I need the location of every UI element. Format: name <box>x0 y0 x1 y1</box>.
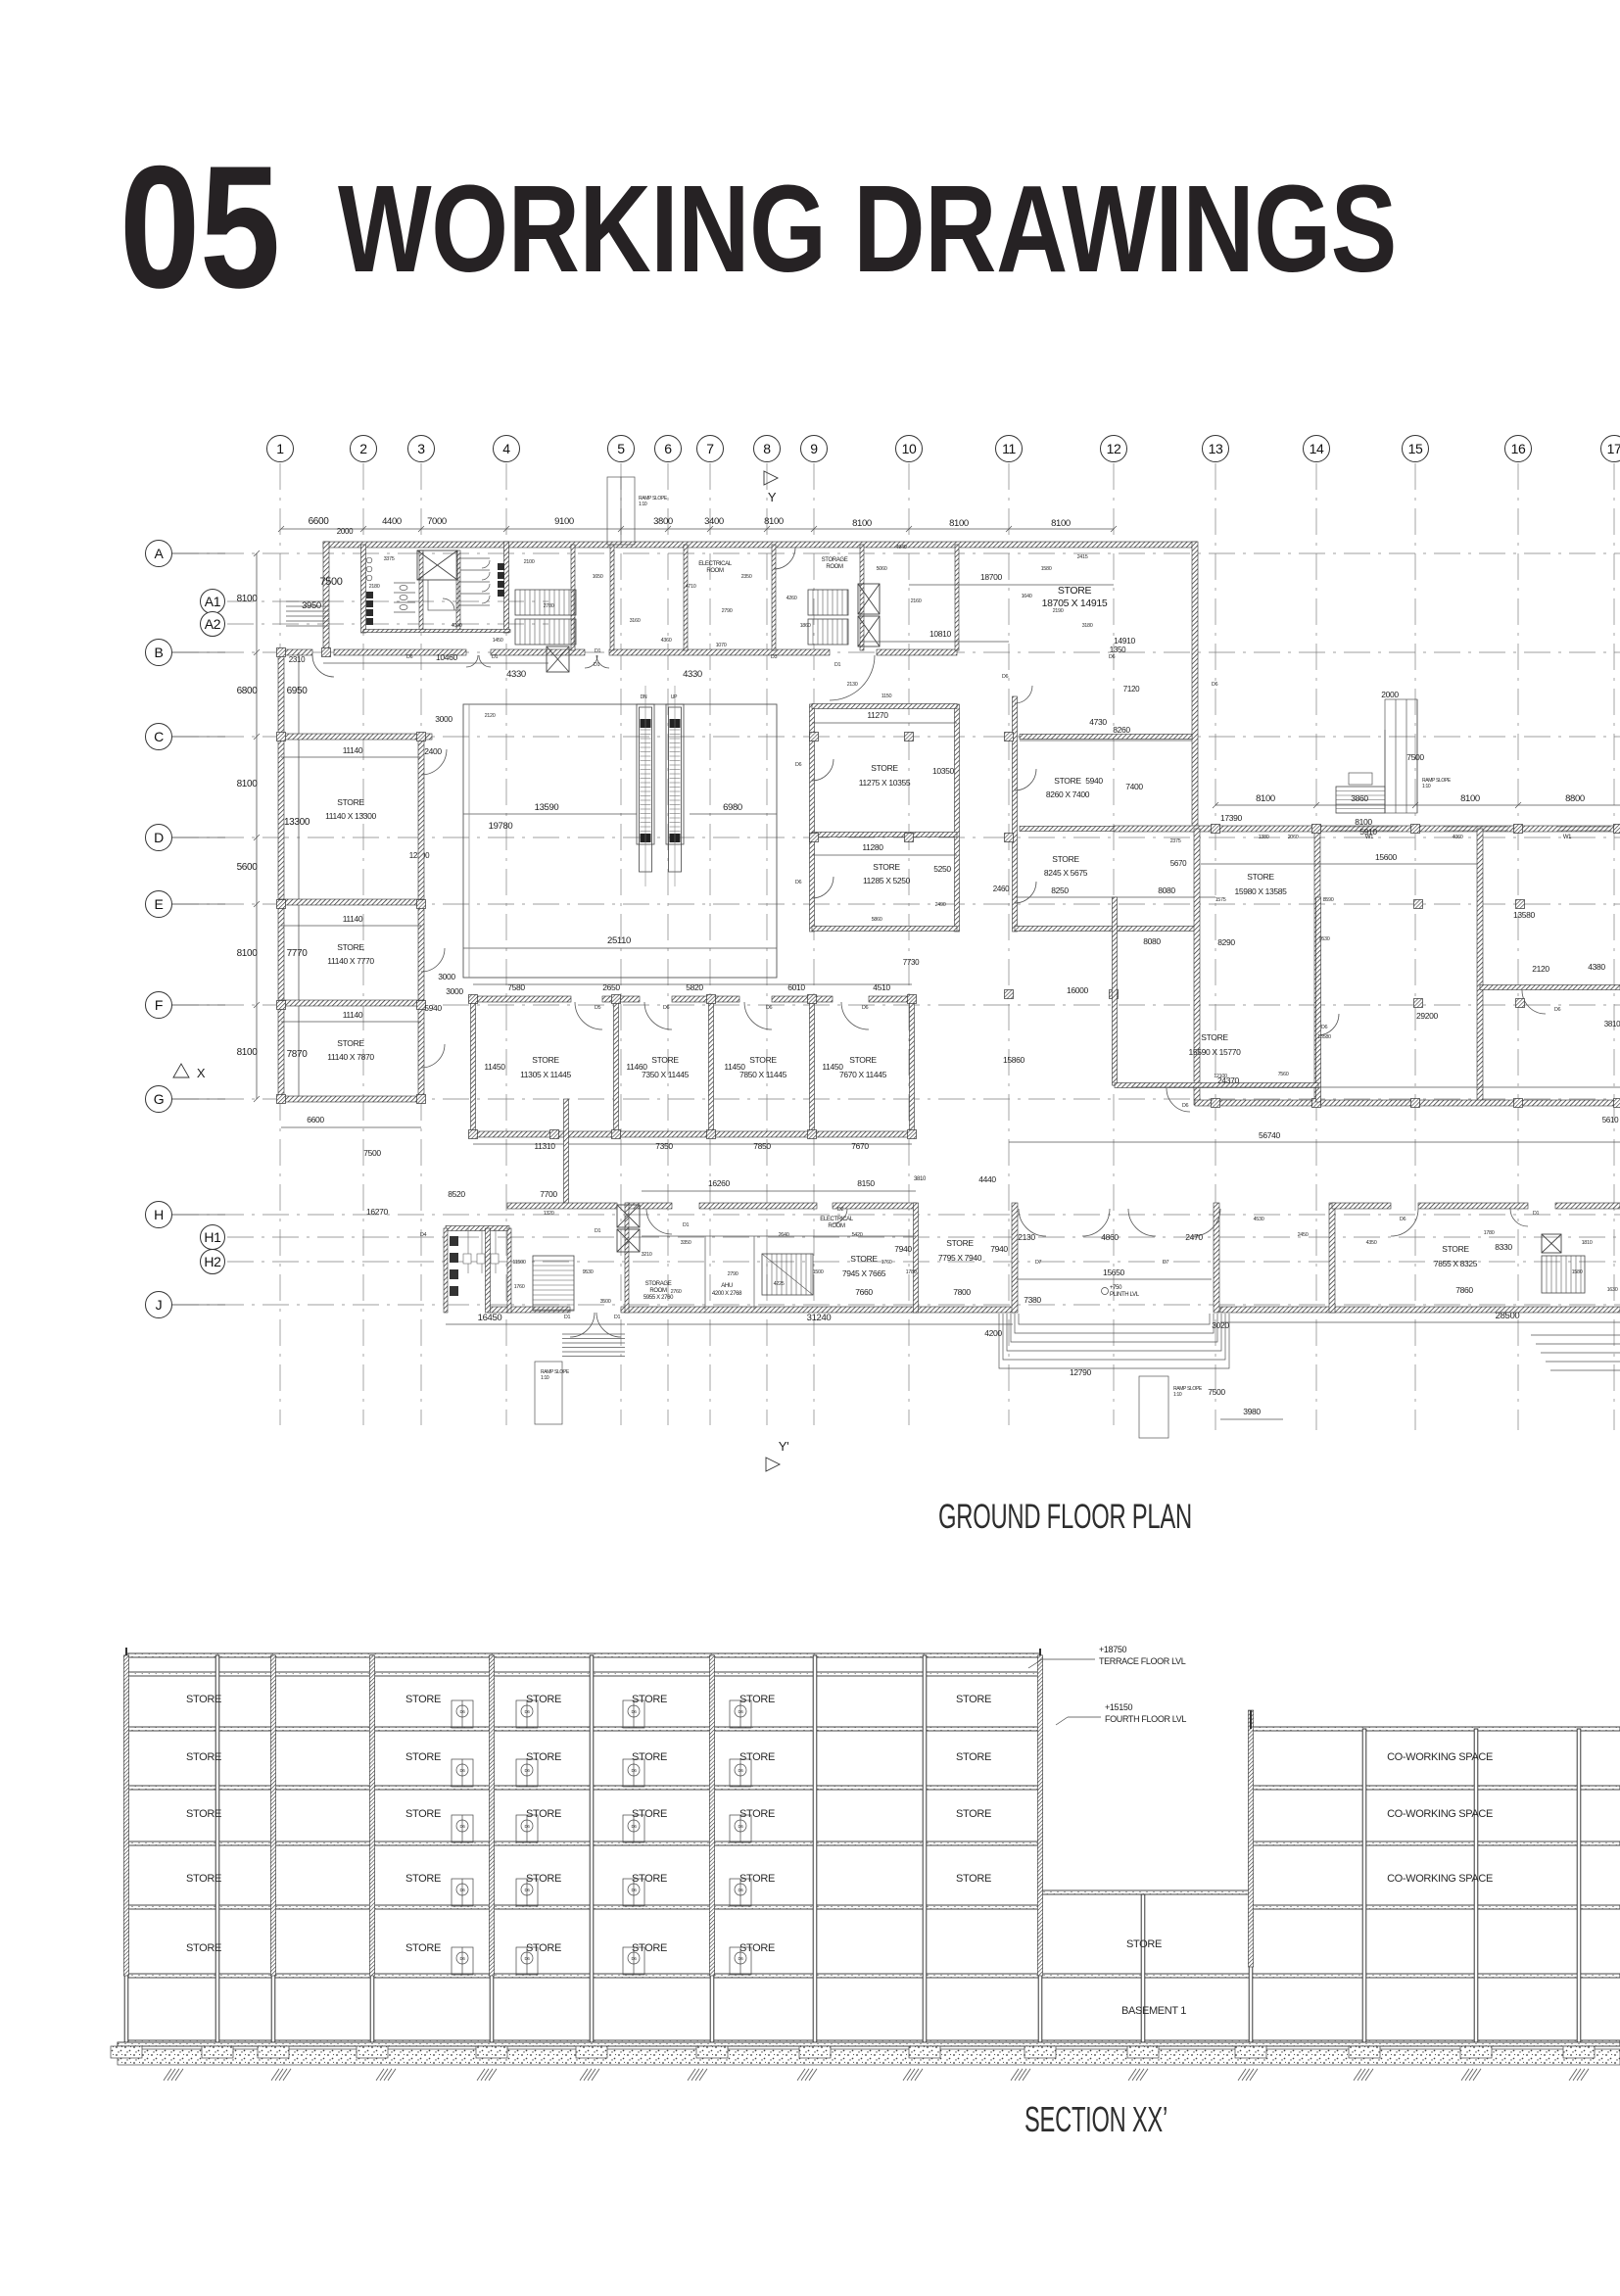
svg-text:11: 11 <box>1002 441 1016 456</box>
svg-text:8100: 8100 <box>949 518 969 529</box>
svg-text:D6: D6 <box>631 1709 637 1714</box>
svg-text:STORE: STORE <box>405 1942 441 1954</box>
svg-text:5955 X 2760: 5955 X 2760 <box>643 1295 674 1301</box>
svg-text:WORKING DRAWINGS: WORKING DRAWINGS <box>338 160 1397 298</box>
svg-text:2: 2 <box>359 441 367 456</box>
svg-text:1630: 1630 <box>1607 1287 1618 1293</box>
svg-text:D6: D6 <box>738 1709 743 1714</box>
svg-text:4510: 4510 <box>873 982 890 992</box>
middle rooms bottom wall <box>473 1131 915 1137</box>
atrium boundary <box>463 704 777 978</box>
svg-text:D6: D6 <box>631 1956 637 1961</box>
svg-text:16260: 16260 <box>708 1178 731 1188</box>
stair mid (two runs, grid 9) <box>808 590 848 615</box>
svg-text:F: F <box>155 997 163 1013</box>
bottom elevators <box>617 1205 640 1227</box>
svg-text:8520: 8520 <box>448 1189 465 1199</box>
svg-text:2130: 2130 <box>847 682 858 688</box>
top dimension line <box>281 528 1114 530</box>
svg-text:D6: D6 <box>631 1888 637 1892</box>
ramp down-left <box>535 1362 562 1424</box>
svg-text:D6: D6 <box>795 880 802 885</box>
svg-text:5860: 5860 <box>872 917 882 923</box>
svg-text:12100: 12100 <box>1214 1074 1227 1079</box>
svg-text:05: 05 <box>119 129 280 324</box>
svg-text:7700: 7700 <box>540 1189 557 1199</box>
svg-text:D6: D6 <box>663 1005 670 1011</box>
svg-text:ROOM: ROOM <box>826 564 843 570</box>
window lines right wing <box>1332 827 1611 831</box>
middle rooms partitions <box>471 999 476 1134</box>
west outer wall grid 1 <box>278 649 284 1102</box>
svg-text:3020: 3020 <box>1212 1320 1229 1330</box>
section: right building slabs <box>1251 1727 1620 1731</box>
svg-text:28500: 28500 <box>1496 1311 1520 1321</box>
bottom band top walls <box>507 1203 617 1209</box>
section: basement columns middle <box>1141 1894 1145 2042</box>
lift near grid 5 <box>547 646 569 672</box>
svg-text:A1: A1 <box>205 594 221 609</box>
svg-text:3950: 3950 <box>302 600 321 611</box>
svg-text:STORE: STORE <box>337 797 364 807</box>
svg-text:6600: 6600 <box>307 1115 324 1124</box>
section: ground slab <box>118 2042 1620 2046</box>
svg-text:7940: 7940 <box>894 1244 912 1254</box>
svg-text:STORE: STORE <box>1201 1032 1228 1042</box>
east wall of left block grid 3 <box>418 734 424 1102</box>
section: columns left <box>124 1655 128 2042</box>
svg-text:7120: 7120 <box>1123 685 1140 694</box>
svg-text:STORE: STORE <box>850 1254 878 1264</box>
svg-text:W1: W1 <box>1563 835 1572 840</box>
svg-text:6950: 6950 <box>287 686 309 696</box>
svg-text:STORE: STORE <box>946 1238 974 1248</box>
svg-text:7855 X 8325: 7855 X 8325 <box>1434 1259 1478 1268</box>
svg-text:4330: 4330 <box>683 669 702 680</box>
row B wall segments with door openings <box>281 649 312 655</box>
svg-text:Y: Y <box>768 490 777 504</box>
svg-text:+15150: +15150 <box>1105 1702 1133 1712</box>
svg-text:H1: H1 <box>204 1229 221 1245</box>
svg-text:8100: 8100 <box>237 948 259 959</box>
stair near grid 14 <box>1336 787 1385 813</box>
section: link roof slab <box>1040 1890 1251 1894</box>
svg-text:D1: D1 <box>1533 1211 1540 1217</box>
svg-text:2650: 2650 <box>602 982 620 992</box>
right-lower rooms <box>1332 1203 1391 1209</box>
svg-text:D6: D6 <box>459 1824 465 1829</box>
svg-text:4225: 4225 <box>774 1281 785 1287</box>
svg-text:7850: 7850 <box>753 1141 771 1151</box>
svg-text:2000: 2000 <box>337 527 354 536</box>
connector wall left <box>564 1099 569 1206</box>
section: foundation strip <box>118 2049 1620 2065</box>
svg-text:3000: 3000 <box>446 986 463 996</box>
svg-text:13580: 13580 <box>1317 1034 1331 1040</box>
svg-text:CO-WORKING SPACE: CO-WORKING SPACE <box>1387 1751 1493 1763</box>
ramp near grid 14 <box>1385 699 1417 813</box>
svg-text:STORE: STORE <box>739 1873 775 1885</box>
section: columns right <box>1249 1729 1253 2042</box>
svg-text:13580: 13580 <box>1513 910 1536 920</box>
svg-text:6980: 6980 <box>723 802 742 813</box>
svg-text:STORAGE: STORAGE <box>822 557 848 563</box>
svg-text:3980: 3980 <box>1243 1407 1261 1416</box>
stair mid top band <box>515 590 576 615</box>
svg-text:7730: 7730 <box>903 958 920 967</box>
svg-text:D6: D6 <box>459 1709 465 1714</box>
svg-text:29200: 29200 <box>1416 1011 1439 1021</box>
svg-text:4: 4 <box>502 441 510 456</box>
svg-text:STORE: STORE <box>532 1055 559 1065</box>
svg-text:D1: D1 <box>834 662 841 668</box>
svg-text:7350: 7350 <box>655 1141 673 1151</box>
section: left building floor slabs <box>126 1672 1040 1676</box>
svg-text:1450: 1450 <box>493 638 503 644</box>
svg-text:D1: D1 <box>492 654 499 660</box>
svg-text:2490: 2490 <box>935 902 946 908</box>
svg-text:ROOM: ROOM <box>649 1288 667 1294</box>
svg-text:7670: 7670 <box>851 1141 869 1151</box>
svg-text:11285 X 5250: 11285 X 5250 <box>863 876 911 885</box>
right bottom steps <box>1531 1335 1620 1370</box>
ramp above grid 5 <box>607 477 635 545</box>
svg-text:3400: 3400 <box>704 516 724 527</box>
right wing north wall y846 <box>1114 826 1620 832</box>
svg-text:4360: 4360 <box>661 638 672 644</box>
wc fixtures left wall <box>366 592 373 625</box>
plan grid horizontal dashed lines <box>172 553 1620 1305</box>
svg-text:8100: 8100 <box>1051 518 1071 529</box>
svg-text:4530: 4530 <box>1254 1217 1264 1222</box>
svg-text:ROOM: ROOM <box>828 1223 845 1229</box>
svg-text:D1: D1 <box>683 1222 690 1228</box>
svg-text:7795 X 7940: 7795 X 7940 <box>938 1253 982 1263</box>
svg-text:1810: 1810 <box>1582 1240 1593 1246</box>
svg-text:3: 3 <box>417 441 425 456</box>
svg-text:11140 X 7870: 11140 X 7870 <box>327 1052 374 1062</box>
svg-text:D6: D6 <box>795 762 802 768</box>
grid bubbles top (1-17) <box>267 436 1620 462</box>
entrance center <box>1019 1209 1046 1236</box>
top band: west wall <box>323 542 329 655</box>
svg-text:31240: 31240 <box>807 1313 832 1323</box>
columns right-center <box>810 733 819 741</box>
entrance doors bottom-left <box>570 1313 595 1337</box>
svg-text:11140 X 13300: 11140 X 13300 <box>325 811 376 821</box>
section marker Y top <box>764 471 778 485</box>
svg-text:D1: D1 <box>564 1315 571 1320</box>
svg-text:11140: 11140 <box>343 1010 363 1020</box>
svg-text:D4: D4 <box>420 1232 427 1238</box>
svg-text:5420: 5420 <box>852 1232 863 1238</box>
svg-text:1760: 1760 <box>514 1284 525 1290</box>
escalator 1 <box>637 704 654 872</box>
store 15590 walls <box>1113 897 1118 1085</box>
svg-text:5910: 5910 <box>1359 827 1377 837</box>
svg-text:STORE: STORE <box>849 1055 877 1065</box>
svg-text:5820: 5820 <box>686 982 703 992</box>
svg-text:18700: 18700 <box>980 572 1003 582</box>
bottom band bottom wall row J <box>488 1307 570 1313</box>
door arcs row B <box>312 655 334 677</box>
svg-text:8250: 8250 <box>1051 885 1069 895</box>
svg-text:8: 8 <box>763 441 771 456</box>
svg-text:STORE: STORE <box>1054 776 1081 786</box>
svg-text:STORE: STORE <box>632 1808 667 1820</box>
svg-text:STORE: STORE <box>651 1055 679 1065</box>
svg-text:8100: 8100 <box>1256 793 1275 804</box>
svg-text:2180: 2180 <box>369 584 380 590</box>
svg-text:STORE: STORE <box>186 1942 221 1954</box>
section: parapet stubs <box>125 1648 127 1655</box>
svg-text:7380: 7380 <box>1024 1295 1041 1305</box>
svg-text:D6: D6 <box>459 1956 465 1961</box>
dims above middle rooms <box>473 983 912 985</box>
svg-text:5940: 5940 <box>1085 776 1103 786</box>
svg-text:FOURTH FLOOR LVL: FOURTH FLOOR LVL <box>1105 1714 1186 1724</box>
svg-text:D6: D6 <box>631 1768 637 1773</box>
svg-text:5250: 5250 <box>933 864 951 874</box>
section: door symbols <box>452 1700 473 1728</box>
svg-text:56740: 56740 <box>1259 1130 1281 1140</box>
section: footing pads <box>111 2046 142 2058</box>
wc bank 2 toilets <box>394 583 415 612</box>
svg-text:10810: 10810 <box>929 629 952 639</box>
svg-text:H: H <box>154 1207 164 1222</box>
svg-text:STORE: STORE <box>405 1808 441 1820</box>
svg-text:8100: 8100 <box>1460 793 1480 804</box>
svg-text:5610: 5610 <box>1602 1116 1619 1124</box>
svg-text:D1: D1 <box>594 662 600 668</box>
svg-text:STORE: STORE <box>749 1055 777 1065</box>
svg-text:8260 X 7400: 8260 X 7400 <box>1046 789 1090 799</box>
svg-text:7800: 7800 <box>953 1287 971 1297</box>
svg-text:STORE: STORE <box>632 1694 667 1705</box>
svg-text:D6: D6 <box>1400 1217 1406 1222</box>
svg-text:11270: 11270 <box>867 710 888 720</box>
svg-text:8260: 8260 <box>1113 725 1130 735</box>
svg-text:7940: 7940 <box>990 1244 1008 1254</box>
svg-text:1780: 1780 <box>1484 1230 1495 1236</box>
svg-text:D2: D2 <box>837 1207 844 1213</box>
svg-text:3000: 3000 <box>438 972 455 981</box>
svg-text:D6: D6 <box>738 1956 743 1961</box>
columns middle rooms <box>469 995 478 1004</box>
svg-text:2120: 2120 <box>1532 964 1549 974</box>
svg-text:11140: 11140 <box>343 745 363 755</box>
svg-text:2375: 2375 <box>1170 838 1181 844</box>
svg-text:STORE: STORE <box>337 1038 364 1048</box>
svg-text:STORE: STORE <box>739 1751 775 1763</box>
svg-text:4940: 4940 <box>896 545 907 550</box>
svg-text:BASEMENT 1: BASEMENT 1 <box>1121 2005 1186 2017</box>
svg-text:STORE: STORE <box>871 763 898 773</box>
door arcs middle rooms <box>575 1002 602 1029</box>
east wall of big store (grid 12-13) <box>1192 542 1198 832</box>
svg-text:D6: D6 <box>524 1888 530 1892</box>
svg-text:D6: D6 <box>524 1768 530 1773</box>
svg-text:STORE: STORE <box>956 1808 991 1820</box>
svg-text:D6: D6 <box>1321 1025 1328 1030</box>
grid bubble leader stubs <box>172 553 225 1305</box>
svg-text:13590: 13590 <box>535 802 559 813</box>
svg-text:STORE: STORE <box>526 1694 561 1705</box>
svg-text:10460: 10460 <box>436 652 458 662</box>
svg-text:4440: 4440 <box>978 1174 996 1184</box>
svg-text:11140: 11140 <box>343 914 363 924</box>
svg-text:STORE: STORE <box>526 1751 561 1763</box>
svg-text:8590: 8590 <box>1323 897 1334 903</box>
svg-text:1320: 1320 <box>544 1211 554 1217</box>
svg-text:D6: D6 <box>524 1956 530 1961</box>
svg-text:2190: 2190 <box>1053 608 1064 614</box>
bottom wc fixtures <box>450 1236 458 1296</box>
svg-text:STORE: STORE <box>1058 585 1092 597</box>
svg-text:+750: +750 <box>1110 1285 1122 1291</box>
partitions in top corridor <box>571 545 575 650</box>
svg-text:15590 X 15770: 15590 X 15770 <box>1188 1047 1241 1057</box>
svg-text:14910: 14910 <box>1114 636 1136 646</box>
svg-text:3160: 3160 <box>630 618 641 624</box>
top-left entry steps <box>286 601 329 626</box>
svg-text:14: 14 <box>1310 441 1324 456</box>
svg-text:8080: 8080 <box>1143 936 1161 946</box>
svg-text:4860: 4860 <box>1101 1232 1119 1242</box>
svg-text:STORE: STORE <box>526 1942 561 1954</box>
svg-text:7860: 7860 <box>1455 1285 1473 1295</box>
svg-text:D7: D7 <box>1163 1260 1169 1266</box>
svg-text:4710: 4710 <box>686 584 696 590</box>
svg-text:2460: 2460 <box>993 885 1010 893</box>
svg-text:8150: 8150 <box>857 1178 875 1188</box>
svg-text:2470: 2470 <box>1185 1232 1203 1242</box>
svg-text:STORE: STORE <box>1247 872 1274 882</box>
elevator pair top band <box>858 584 880 614</box>
svg-text:11275 X 10355: 11275 X 10355 <box>859 778 911 788</box>
svg-text:16450: 16450 <box>478 1313 502 1323</box>
svg-text:17: 17 <box>1607 441 1620 456</box>
svg-text:4200: 4200 <box>984 1328 1002 1338</box>
svg-text:7560: 7560 <box>1278 1072 1289 1077</box>
svg-text:STORE: STORE <box>739 1942 775 1954</box>
svg-text:15600: 15600 <box>1375 852 1398 862</box>
svg-text:2130: 2130 <box>1018 1232 1035 1242</box>
internal partitions bottom band <box>642 1235 916 1237</box>
svg-text:D6: D6 <box>1212 682 1218 688</box>
svg-text:J: J <box>156 1297 163 1313</box>
dims right top <box>1215 804 1620 806</box>
svg-text:3860: 3860 <box>1351 793 1368 803</box>
svg-text:4060: 4060 <box>1453 835 1463 840</box>
row E wall <box>278 899 424 905</box>
svg-text:3810: 3810 <box>914 1176 927 1182</box>
svg-text:4330: 4330 <box>506 669 526 680</box>
svg-text:7500: 7500 <box>319 576 342 588</box>
svg-text:17390: 17390 <box>1220 813 1243 823</box>
svg-text:9100: 9100 <box>554 516 574 527</box>
svg-text:10350: 10350 <box>932 766 955 776</box>
svg-text:D6: D6 <box>766 1005 773 1011</box>
svg-text:11450: 11450 <box>822 1062 843 1072</box>
svg-text:1350: 1350 <box>1110 646 1126 654</box>
svg-text:E: E <box>155 896 164 912</box>
svg-text:1580: 1580 <box>1572 1269 1583 1275</box>
svg-text:3180: 3180 <box>1082 623 1093 629</box>
svg-text:7: 7 <box>706 441 714 456</box>
svg-text:5940: 5940 <box>424 1003 442 1013</box>
svg-text:D1: D1 <box>614 1315 621 1320</box>
svg-text:16: 16 <box>1511 441 1526 456</box>
svg-text:1:10: 1:10 <box>541 1375 549 1381</box>
entry steps below <box>562 1334 625 1357</box>
svg-text:12790: 12790 <box>1070 1367 1092 1377</box>
svg-text:1760: 1760 <box>881 1260 892 1266</box>
svg-text:7770: 7770 <box>287 948 309 959</box>
svg-text:CO-WORKING SPACE: CO-WORKING SPACE <box>1387 1808 1493 1820</box>
svg-text:7580: 7580 <box>507 982 525 992</box>
svg-text:STORE: STORE <box>186 1873 221 1885</box>
columns left block <box>277 733 286 741</box>
svg-text:2160: 2160 <box>911 598 922 604</box>
row C wall <box>278 734 432 740</box>
svg-text:6600: 6600 <box>309 516 330 527</box>
svg-text:2310: 2310 <box>289 655 306 664</box>
svg-text:+18750: +18750 <box>1099 1645 1127 1654</box>
svg-text:D6: D6 <box>738 1768 743 1773</box>
svg-text:2780: 2780 <box>544 603 554 609</box>
svg-text:2060: 2060 <box>1288 835 1299 840</box>
right wing columns <box>1212 825 1220 834</box>
svg-text:AHU: AHU <box>721 1283 733 1289</box>
svg-text:1380: 1380 <box>1259 835 1269 840</box>
svg-text:STORE: STORE <box>337 942 364 952</box>
svg-text:15: 15 <box>1408 441 1423 456</box>
svg-text:3800: 3800 <box>653 516 673 527</box>
svg-text:D6: D6 <box>738 1888 743 1892</box>
svg-text:9: 9 <box>810 441 818 456</box>
svg-text:1:10: 1:10 <box>1173 1392 1182 1398</box>
svg-text:1:10: 1:10 <box>639 502 647 507</box>
svg-text:7660: 7660 <box>855 1287 873 1297</box>
svg-text:STORAGE: STORAGE <box>645 1281 672 1287</box>
svg-text:A: A <box>155 546 165 561</box>
svg-text:3210: 3210 <box>642 1252 652 1258</box>
row F wall <box>278 1000 424 1006</box>
svg-text:DN: DN <box>641 694 647 700</box>
svg-text:9530: 9530 <box>583 1269 594 1275</box>
svg-text:12: 12 <box>1107 441 1121 456</box>
svg-text:2100: 2100 <box>524 559 535 565</box>
svg-text:STORE: STORE <box>1126 1938 1162 1950</box>
door arc electrical room <box>774 548 795 569</box>
dims below middle rooms <box>473 1143 912 1145</box>
svg-text:7500: 7500 <box>1406 752 1424 762</box>
svg-text:7500: 7500 <box>363 1148 381 1158</box>
svg-text:1780: 1780 <box>906 1269 917 1275</box>
top band: north outer wall row A <box>323 542 1197 548</box>
svg-text:D6: D6 <box>1002 674 1009 680</box>
svg-text:B: B <box>155 645 164 660</box>
svg-text:6: 6 <box>664 441 672 456</box>
svg-text:2120: 2120 <box>485 713 496 719</box>
svg-text:A2: A2 <box>205 616 221 632</box>
svg-text:UP: UP <box>671 694 678 700</box>
svg-text:8100: 8100 <box>852 518 872 529</box>
row G wall <box>278 1096 424 1102</box>
svg-text:8100: 8100 <box>237 594 259 604</box>
svg-text:STORE: STORE <box>873 862 900 872</box>
